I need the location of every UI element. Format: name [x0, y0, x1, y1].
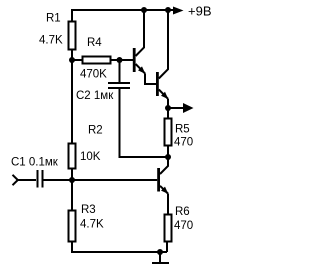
- resistor R3: [69, 211, 76, 242]
- resistor R4: [83, 57, 111, 64]
- capacitor C2: [108, 83, 130, 88]
- svg-text:+9В: +9В: [188, 4, 212, 19]
- svg-text:R5: R5: [175, 124, 190, 136]
- svg-text:4.7K: 4.7K: [39, 35, 63, 47]
- ground: [152, 252, 169, 263]
- input terminal chevron: [13, 175, 18, 185]
- wire R6 bottom down: [166, 242, 168, 253]
- wire Q1 emitter to Q2 base: [145, 73, 156, 84]
- power +9V terminal arrow: [173, 7, 184, 15]
- svg-text:470: 470: [174, 137, 193, 149]
- wire Q3 emitter to R6: [167, 194, 169, 215]
- node A junction: [69, 57, 75, 63]
- resistor R1: [69, 22, 76, 50]
- node Q1 collector at rail: [141, 7, 147, 13]
- transistor Q1: [133, 10, 146, 74]
- wire R1 bottom to node A: [71, 50, 73, 61]
- wire R2 bottom to node E: [71, 169, 73, 181]
- resistor R5: [165, 119, 172, 146]
- svg-text:R3: R3: [81, 204, 96, 216]
- node ground junction: [157, 249, 163, 255]
- svg-text:470K: 470K: [80, 69, 107, 81]
- wire output node to arrow: [168, 107, 184, 109]
- node D junction: [165, 154, 171, 160]
- wire R5 bottom to node D: [167, 146, 169, 158]
- transistor Q2: [156, 10, 168, 99]
- wire R4 to Q1 base: [111, 59, 134, 61]
- svg-text:R6: R6: [175, 206, 190, 218]
- capacitor C1: [38, 170, 43, 188]
- svg-text:10K: 10K: [80, 151, 101, 163]
- wire C1 to node E: [44, 179, 73, 181]
- wire top supply rail: [72, 10, 176, 21]
- wire node A down to R2: [71, 60, 73, 144]
- wire bottom return R3 to R6: [72, 242, 167, 253]
- svg-text:С2 1мк: С2 1мк: [76, 90, 114, 102]
- svg-text:470: 470: [174, 220, 193, 232]
- wire node B down to C2: [119, 60, 121, 82]
- wire C2 bottom to node D: [120, 89, 169, 157]
- node Q2 collector at rail: [165, 7, 171, 13]
- svg-text:R1: R1: [46, 13, 61, 25]
- output terminal arrow: [183, 103, 194, 113]
- wire node E to Q3 base: [72, 179, 157, 181]
- svg-text:4.7K: 4.7K: [80, 219, 104, 231]
- resistor R2: [69, 144, 76, 169]
- svg-text:R4: R4: [87, 37, 102, 49]
- wire node E down to R3: [71, 180, 73, 211]
- transistor Q3: [157, 157, 168, 194]
- wire input to C1: [18, 179, 37, 181]
- resistor R6: [165, 215, 172, 242]
- node output junction: [165, 105, 171, 111]
- node E junction: [69, 177, 75, 183]
- wire Q2 emitter down to output node: [167, 99, 169, 119]
- svg-text:С1 0.1мк: С1 0.1мк: [11, 157, 59, 169]
- wire node A to R4: [72, 59, 83, 61]
- node B junction R4/C2/Q1: [117, 57, 123, 63]
- svg-text:R2: R2: [88, 125, 103, 137]
